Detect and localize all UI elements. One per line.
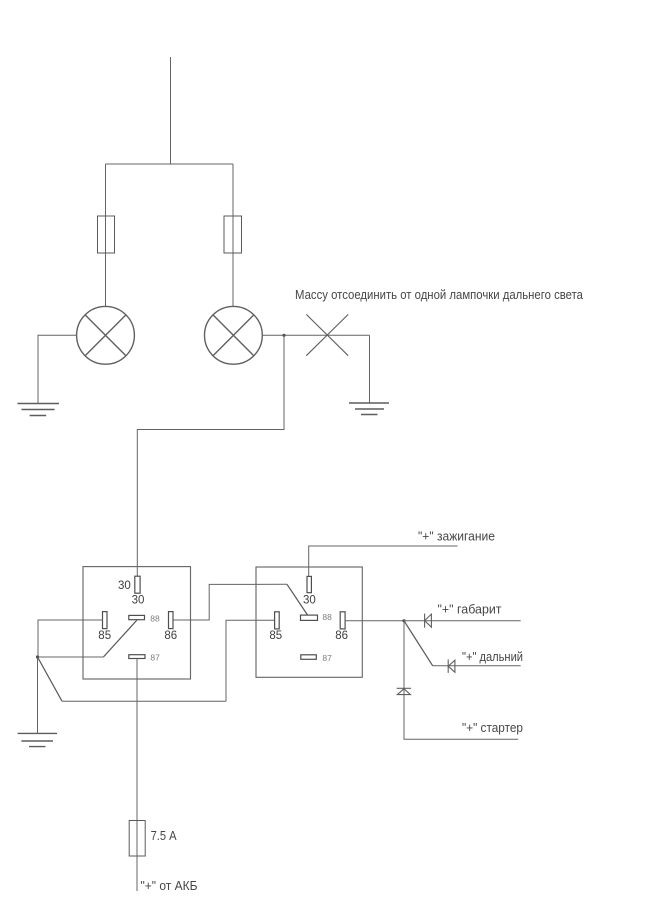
fuse F3 7.5 A [129, 821, 145, 857]
relay K2 pin 88 [301, 615, 318, 620]
ground relay net [18, 733, 57, 746]
wire K2 pin 30 to ignition [309, 546, 458, 576]
relay K1 pin 85 [103, 612, 108, 629]
relay K2 pin 30 [307, 576, 311, 592]
node junction ground net [36, 655, 39, 658]
wire left lamp to ground [38, 335, 77, 403]
svg-text:30: 30 [118, 580, 131, 592]
relay K1 pin 30 [135, 576, 140, 593]
wire right lamp to X mark [262, 334, 369, 336]
lamp HL2 right [205, 306, 263, 364]
svg-text:30: 30 [132, 595, 145, 607]
svg-text:"+" дальний: "+" дальний [462, 649, 523, 664]
svg-text:Массу отсоединить от одной лам: Массу отсоединить от одной лампочки даль… [295, 287, 584, 302]
svg-text:88: 88 [150, 613, 160, 623]
diode VD3 (cathode up) [397, 688, 411, 694]
relay K2 pin 86 [340, 612, 345, 629]
wire junction to armature K1 [38, 656, 104, 658]
wire K2 pin 85 from left riser [226, 620, 275, 701]
relay K1 pin 87 [129, 655, 145, 659]
ground left lamp [17, 404, 59, 416]
relay K2 box [256, 567, 362, 677]
diode VD1 (cathode left) [425, 614, 432, 628]
svg-text:88: 88 [322, 612, 332, 622]
wire junction down-left to relay K1 pin 30 [137, 335, 284, 576]
fuse F2 [224, 216, 242, 253]
wire diagonal to dalniy [404, 621, 433, 666]
ground right [349, 403, 389, 415]
svg-text:86: 86 [335, 630, 348, 642]
relay K1 box [83, 567, 191, 679]
wire junction down to ground [37, 657, 39, 733]
wire right branch down to lamp [232, 164, 234, 307]
lamp HL1 left [77, 306, 135, 364]
svg-text:86: 86 [164, 630, 177, 642]
svg-text:30: 30 [303, 595, 316, 607]
fuse F1 [98, 216, 115, 253]
wire junction diagonal down [38, 657, 63, 701]
svg-text:"+" зажигание: "+" зажигание [418, 529, 495, 544]
svg-text:85: 85 [269, 630, 282, 642]
relay K2 pin 87 [301, 655, 317, 660]
relay K1 pin 88 [129, 615, 145, 619]
wire K1 pin 87 down to battery fuse [136, 659, 138, 892]
wire K1 pin 85 to ground corner [38, 620, 103, 657]
relay K1 pin 86 [169, 612, 174, 629]
relay K2 pin 85 [275, 612, 280, 629]
wire top feed vertical [170, 57, 172, 164]
wire down to starter [404, 621, 518, 740]
svg-text:87: 87 [322, 653, 332, 663]
relay K2 armature to pin 88 [287, 584, 308, 615]
wire down to right ground [369, 335, 371, 403]
wire top horizontal split [106, 163, 234, 165]
node junction diode net [402, 619, 405, 622]
wire dalniy horizontal [433, 665, 521, 667]
wire K2 pin 86 to junction [345, 620, 405, 622]
svg-text:"+" от АКБ: "+" от АКБ [141, 878, 198, 893]
svg-text:87: 87 [150, 653, 160, 663]
node junction at lamp output [282, 334, 285, 337]
wire run to K2-85 riser [62, 700, 226, 702]
X disconnect mark [306, 314, 348, 355]
diode VD2 (cathode left) [448, 660, 455, 673]
wire left branch down to lamp [105, 164, 107, 307]
svg-text:"+" стартер: "+" стартер [462, 720, 523, 735]
relay K1 armature to pin 88 [103, 620, 137, 657]
svg-text:85: 85 [98, 630, 111, 642]
wire to gabarit with diode VD1 [404, 620, 521, 622]
wire K1 pin 86 up-over toward K2 [173, 584, 287, 620]
svg-text:7.5 А: 7.5 А [151, 828, 177, 843]
svg-text:"+" габарит: "+" габарит [438, 602, 502, 617]
